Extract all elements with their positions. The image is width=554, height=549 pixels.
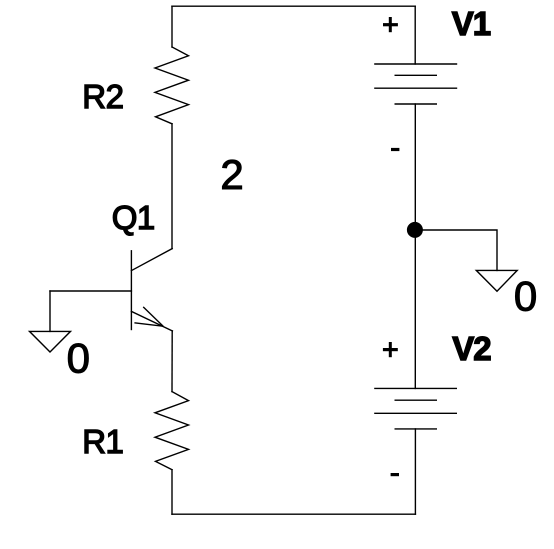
minus sign V2 bbox=[391, 473, 399, 476]
resistor R1 bbox=[155, 392, 189, 470]
battery V1 bbox=[375, 64, 457, 104]
node junction dot bbox=[407, 222, 423, 238]
plus sign V1 bbox=[383, 17, 398, 32]
wire bottom horizontal bbox=[172, 513, 415, 515]
battery V2 bbox=[375, 388, 456, 429]
wire left ground drop bbox=[49, 291, 51, 331]
transistor Q1 bbox=[131, 249, 172, 331]
wire top horizontal bbox=[172, 5, 415, 7]
ground left bbox=[30, 331, 71, 352]
minus sign V1 bbox=[391, 148, 399, 151]
wire left bottom vertical bbox=[171, 470, 173, 515]
svg-text:V1: V1 bbox=[452, 5, 491, 42]
svg-text:R2: R2 bbox=[82, 78, 123, 115]
svg-text:V2: V2 bbox=[452, 330, 491, 367]
wire left top vertical bbox=[171, 6, 173, 47]
resistor R2 bbox=[155, 47, 189, 124]
ground right bbox=[476, 270, 517, 291]
wire right bottom vertical bbox=[414, 429, 416, 514]
wire node 2 vertical (R2 to Q1 collector) bbox=[171, 124, 173, 249]
wire V1 top vertical bbox=[414, 6, 416, 64]
plus sign V2 bbox=[383, 342, 398, 357]
wire V2 top to node bbox=[414, 230, 416, 388]
svg-text:2: 2 bbox=[220, 151, 243, 198]
wire node to right ground bbox=[415, 230, 497, 270]
svg-text:Q1: Q1 bbox=[112, 199, 155, 236]
svg-text:0: 0 bbox=[67, 334, 90, 381]
wire base of Q1 bbox=[50, 290, 131, 292]
svg-text:R1: R1 bbox=[82, 423, 123, 460]
wire node to V1 bottom bbox=[414, 104, 416, 230]
svg-text:0: 0 bbox=[514, 273, 537, 320]
wire emitter vertical bbox=[171, 331, 173, 392]
